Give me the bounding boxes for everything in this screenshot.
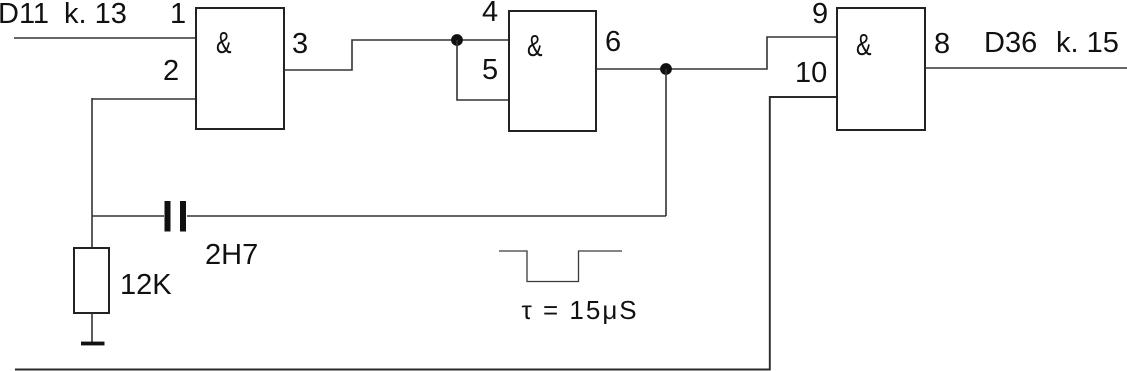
svg-text:D36: D36	[984, 27, 1037, 59]
wire U1 pin2 horizontal	[92, 98, 196, 100]
wire U3 pin8 output to D36	[925, 67, 1127, 69]
wire input D11 to U1 pin1	[14, 37, 196, 39]
ground	[81, 342, 105, 346]
resistor R1	[74, 248, 109, 313]
svg-text:3: 3	[292, 28, 308, 60]
svg-text:2: 2	[163, 55, 179, 87]
svg-text:5: 5	[482, 54, 498, 86]
svg-text:&: &	[856, 27, 872, 62]
svg-text:k. 13: k. 13	[64, 0, 127, 30]
svg-text:&: &	[216, 25, 232, 60]
wire R1 bottom to ground	[91, 313, 93, 342]
wire U1 pin2 vertical down to capacitor net	[91, 98, 93, 249]
svg-text:4: 4	[482, 0, 498, 28]
wire capacitor net horizontal	[92, 215, 164, 217]
and-gate U3	[837, 8, 925, 130]
svg-text:8: 8	[934, 28, 950, 60]
svg-text:12K: 12K	[120, 269, 172, 301]
and-gate U1	[196, 8, 284, 129]
svg-text:k. 15: k. 15	[1056, 27, 1119, 59]
wire bottom rail to U3 pin10	[15, 97, 837, 370]
svg-text:10: 10	[795, 57, 827, 89]
svg-text:D11: D11	[0, 0, 49, 30]
svg-text:2H7: 2H7	[205, 239, 258, 271]
junction node B	[660, 63, 672, 75]
svg-text:6: 6	[605, 26, 621, 58]
svg-text:&: &	[527, 28, 543, 63]
wire U1 pin3 output to U2 pin4	[284, 40, 509, 70]
and-gate U2	[509, 11, 596, 131]
svg-text:τ = 15μS: τ = 15μS	[522, 295, 639, 325]
svg-text:1: 1	[170, 0, 186, 30]
wire branch node B down to capacitor net	[665, 69, 667, 216]
pulse waveform symbol	[499, 251, 622, 282]
wire branch node A down to U2 pin5	[457, 40, 509, 100]
svg-text:9: 9	[812, 0, 828, 30]
wire U2 pin6 output to U3 pin9	[596, 37, 837, 69]
junction node A	[451, 34, 463, 46]
capacitor C1 plates	[165, 201, 171, 232]
